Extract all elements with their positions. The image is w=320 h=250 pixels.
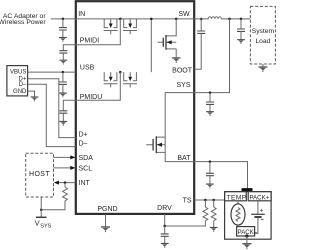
wire BATFET source to BAT pin <box>165 152 194 161</box>
ground (system load) <box>262 64 264 66</box>
wire VBUS to USB pin <box>28 71 76 73</box>
wire connector GND stub <box>28 91 35 97</box>
svg-text:BOOT: BOOT <box>172 68 193 75</box>
ground <box>161 243 169 247</box>
svg-text:USB: USB <box>80 64 95 71</box>
svg-text:PACK+: PACK+ <box>249 195 269 202</box>
svg-text:GND: GND <box>13 89 27 95</box>
node USB/IN junction <box>150 18 153 21</box>
wire INT from IC to host with arrow <box>59 182 76 184</box>
wire PMIDI external to cap <box>63 45 76 51</box>
ground <box>101 227 110 232</box>
ground <box>31 97 39 101</box>
resistor R2 (TS upper, to DRV) <box>204 200 206 207</box>
svg-text:System: System <box>252 28 275 35</box>
node output cap tap <box>240 18 243 21</box>
capacitor C8 (BAT) <box>206 173 214 175</box>
wire BOOT external with bootstrap cap <box>194 19 201 69</box>
ground <box>59 121 67 125</box>
wire SCL with arrow into IC <box>54 167 71 169</box>
svg-text:IN: IN <box>78 11 85 18</box>
wire BAT external <box>194 162 247 189</box>
node SYS cap tap <box>209 91 212 94</box>
ground <box>59 60 67 64</box>
capacitor C4 (PMIDU) <box>59 111 67 113</box>
wire SDA with arrow into IC <box>54 156 71 158</box>
ground <box>210 227 218 231</box>
svg-text:+: + <box>260 209 264 215</box>
node INT pull-up tap <box>64 181 67 184</box>
wire PMIDI internal <box>76 19 121 45</box>
capacitor C1 (IN) <box>59 28 67 30</box>
svg-text:TEMP: TEMP <box>227 195 247 202</box>
resistor R3 (TS lower, to GND) <box>213 200 215 207</box>
terminal pad PACK+ entry <box>242 188 253 192</box>
USB connector J1 <box>7 66 28 96</box>
svg-text:PMIDU: PMIDU <box>80 94 103 101</box>
svg-text:INT: INT <box>79 180 91 187</box>
node VSYS rail tap <box>40 208 43 211</box>
node TS R2 tap <box>204 199 207 202</box>
svg-text:SYS: SYS <box>176 82 190 89</box>
svg-text:SYS: SYS <box>40 223 51 229</box>
wire SYS internal to BATFET <box>165 93 194 138</box>
ground <box>59 37 67 41</box>
node IN cap tap <box>62 18 65 21</box>
svg-text:DRV: DRV <box>157 205 172 212</box>
svg-text:SDA: SDA <box>79 155 94 162</box>
transistor Q5 (low-side FET at SW) <box>158 19 177 57</box>
node pack ground junction <box>245 234 248 237</box>
IC U1 (charger IC) <box>76 1 194 214</box>
node BAT cap tap <box>209 160 212 163</box>
wire SYS feedback rail <box>194 19 229 93</box>
svg-text:Load: Load <box>255 38 270 45</box>
ground <box>172 58 181 63</box>
inductor L1 <box>194 17 250 19</box>
svg-text:HOST: HOST <box>29 171 50 178</box>
wire D+ from connector to IC <box>28 79 76 138</box>
PACK+ terminal box <box>248 192 271 201</box>
transistor Q3 (input FET pair on USB) <box>104 72 118 87</box>
wire TS to battery pack <box>194 199 224 201</box>
svg-text:Wireless Power: Wireless Power <box>0 19 46 26</box>
battery pack box <box>225 192 272 240</box>
svg-text:TS: TS <box>183 197 192 204</box>
node SW/BOOT tap <box>200 18 203 21</box>
wire IN net (adapter to IC pin IN, through to SW node) <box>51 18 195 20</box>
PACK- terminal box <box>237 227 255 236</box>
capacitor C7 (SYS) <box>206 102 214 104</box>
transistor Q6 (BATFET) <box>146 137 165 152</box>
wire HOST supply rail <box>40 197 42 217</box>
ground <box>206 112 214 116</box>
wire PMIDU internal <box>76 72 121 100</box>
wire pack ground <box>246 236 248 244</box>
svg-text:D–: D– <box>19 82 27 88</box>
capacitor C6 (system output) <box>237 29 245 31</box>
node USB cap tap <box>62 71 65 74</box>
wire D- from connector to IC <box>28 84 76 146</box>
node SYS rail tap at inductor output <box>228 18 231 21</box>
node TS R3 tap <box>212 199 215 202</box>
svg-text:D–: D– <box>79 140 88 147</box>
svg-text:PMIDI: PMIDI <box>80 37 100 44</box>
transistor Q4 <box>123 72 137 87</box>
svg-text:VBUS: VBUS <box>10 69 26 75</box>
System Load box <box>250 6 275 64</box>
wire USB rail joins IN rail <box>150 19 152 72</box>
transistor Q2 <box>123 19 137 34</box>
svg-text:PGND: PGND <box>97 206 117 213</box>
HOST box <box>26 153 54 197</box>
transistor Q1 (input FET pair on IN) <box>104 19 118 34</box>
svg-text:BAT: BAT <box>177 155 191 162</box>
svg-text:SW: SW <box>178 11 190 18</box>
battery BT1 <box>257 201 259 215</box>
wire PGND pin <box>105 214 107 227</box>
ground (battery pack) <box>242 244 251 249</box>
node PMIDI tap <box>119 18 122 21</box>
ground <box>59 93 67 97</box>
capacitor C5 (BOOT) <box>197 31 205 33</box>
svg-text:V: V <box>35 218 40 227</box>
svg-text:SCL: SCL <box>79 165 93 172</box>
TEMP terminal box <box>225 192 247 201</box>
thermistor RT1 <box>237 201 239 204</box>
capacitor C9 (DRV) <box>161 234 169 236</box>
capacitor C2 (PMIDI) <box>59 51 67 53</box>
ground <box>237 40 245 44</box>
wire SW node internal dot <box>175 18 178 21</box>
resistor R1 (INT pull-up) <box>64 183 66 187</box>
svg-text:D+: D+ <box>79 131 88 138</box>
capacitor C3 (USB) <box>59 82 67 84</box>
wire DRV pin <box>164 214 166 226</box>
node PMIDU tap <box>119 71 122 74</box>
ground <box>206 184 214 188</box>
wire PMIDU external to cap <box>63 100 76 111</box>
node DRV junction <box>163 225 166 228</box>
supply VSYS terminal bar <box>36 216 47 218</box>
